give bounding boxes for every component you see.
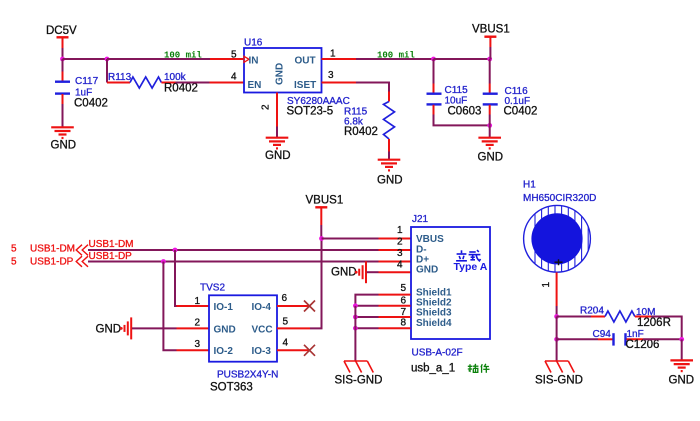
svg-text:3: 3 bbox=[328, 70, 334, 81]
wire node C down to C115 bbox=[433, 59, 435, 93]
svg-text:ISET: ISET bbox=[294, 80, 316, 91]
wire node A down to C117 bbox=[62, 59, 64, 81]
svg-text:GND: GND bbox=[416, 265, 438, 276]
svg-text:5: 5 bbox=[401, 283, 407, 294]
svg-text:SOT363: SOT363 bbox=[210, 382, 253, 394]
wire J21 Shield4 pin bbox=[355, 327, 410, 329]
power flag DC5V bbox=[46, 25, 77, 48]
svg-text:2: 2 bbox=[195, 318, 201, 329]
ground (U16 pin2) bbox=[265, 138, 291, 162]
svg-text:TVS2: TVS2 bbox=[200, 283, 225, 294]
svg-text:SIS-GND: SIS-GND bbox=[535, 375, 583, 387]
svg-text:C0402: C0402 bbox=[504, 105, 538, 117]
svg-text:1206R: 1206R bbox=[637, 317, 671, 329]
wire node G down to TVS2 IO-2 bbox=[163, 262, 209, 351]
mounting hole H1 bbox=[523, 180, 596, 274]
node E junction bbox=[487, 123, 492, 128]
svg-text:GND: GND bbox=[214, 324, 236, 335]
svg-text:4: 4 bbox=[231, 72, 237, 83]
ground bars (TVS2 pin2) bbox=[96, 317, 132, 339]
svg-text:MH650CIR320D: MH650CIR320D bbox=[523, 193, 596, 204]
wire J21 Shield3 pin bbox=[355, 316, 410, 318]
svg-text:4: 4 bbox=[397, 260, 403, 271]
node I junction bbox=[353, 303, 358, 308]
wire TVS2 VCC pin to node H bbox=[277, 239, 322, 329]
ground (C117) bbox=[51, 127, 77, 151]
node C junction bbox=[431, 57, 436, 62]
svg-text:GND: GND bbox=[669, 375, 695, 387]
svg-text:C117: C117 bbox=[75, 76, 99, 87]
wire C117 to ground bbox=[62, 104, 64, 127]
ground bars (J21 pin4) bbox=[331, 261, 366, 283]
svg-text:100 mil: 100 mil bbox=[164, 51, 202, 61]
svg-text:GND: GND bbox=[265, 150, 291, 162]
svg-text:3: 3 bbox=[195, 339, 201, 350]
svg-text:R204: R204 bbox=[580, 306, 604, 317]
svg-text:1: 1 bbox=[330, 49, 336, 60]
svg-text:1: 1 bbox=[195, 296, 201, 307]
wire DC5V to node A bbox=[62, 48, 64, 59]
svg-text:VCC: VCC bbox=[252, 324, 273, 335]
power flag VBUS1 (top) bbox=[472, 24, 510, 60]
svg-text:GND: GND bbox=[478, 152, 504, 164]
svg-text:100k: 100k bbox=[164, 72, 187, 83]
wire node L to node M bbox=[556, 317, 558, 340]
wire node F down to TVS2 IO-1 bbox=[175, 250, 209, 306]
ground (C115 C116) bbox=[478, 138, 504, 164]
wire node E to ground bbox=[489, 125, 491, 137]
wire U16 OUT pin bbox=[322, 58, 357, 60]
wire USB1-DM to J21 D- bbox=[88, 249, 411, 251]
svg-text:8: 8 bbox=[401, 317, 407, 328]
svg-text:GND: GND bbox=[275, 63, 286, 85]
svg-text:C0402: C0402 bbox=[74, 98, 108, 110]
svg-text:SOT23-5: SOT23-5 bbox=[287, 106, 334, 118]
svg-text:USB1-DP: USB1-DP bbox=[30, 256, 74, 267]
svg-text:VBUS1: VBUS1 bbox=[306, 194, 344, 206]
svg-text:5: 5 bbox=[283, 316, 289, 327]
svg-text:EN: EN bbox=[248, 80, 262, 91]
svg-text:6: 6 bbox=[282, 293, 288, 304]
svg-text:GND: GND bbox=[96, 324, 122, 336]
resistor R204 bbox=[580, 306, 671, 329]
wire node M to C94 bbox=[557, 338, 613, 340]
svg-text:U16: U16 bbox=[244, 38, 263, 49]
node K junction bbox=[353, 326, 358, 331]
svg-text:IO-1: IO-1 bbox=[214, 302, 234, 313]
svg-text:SIS-GND: SIS-GND bbox=[335, 375, 383, 387]
node B junction bbox=[105, 57, 110, 62]
svg-text:C1206: C1206 bbox=[626, 339, 660, 351]
wire shields down to SIS-GND bbox=[354, 306, 356, 361]
node G junction on DP bbox=[161, 259, 166, 264]
svg-text:R113: R113 bbox=[108, 72, 132, 83]
capacitor C116 bbox=[483, 86, 538, 125]
svg-text:IO-2: IO-2 bbox=[214, 346, 234, 357]
svg-text:R0402: R0402 bbox=[344, 126, 378, 138]
wire ground bars to J21 GND pin bbox=[367, 271, 411, 273]
svg-text:GND: GND bbox=[331, 267, 357, 279]
node L junction bbox=[554, 314, 559, 319]
SIS-GND symbol (H1) bbox=[535, 361, 583, 387]
svg-text:5: 5 bbox=[11, 244, 17, 255]
svg-text:IN: IN bbox=[249, 56, 259, 67]
svg-text:1: 1 bbox=[397, 225, 403, 236]
label 立式 (drawn strokes) bbox=[456, 250, 480, 261]
svg-text:1: 1 bbox=[541, 282, 552, 288]
capacitor C115 bbox=[427, 85, 482, 117]
wire node A to node B bbox=[63, 58, 108, 60]
wire R115 to ground bbox=[388, 139, 390, 159]
svg-text:Shield4: Shield4 bbox=[416, 318, 452, 329]
svg-text:100 mil: 100 mil bbox=[377, 51, 415, 61]
wire C115 to node E bbox=[434, 115, 490, 126]
node J junction bbox=[353, 315, 358, 320]
node N junction bbox=[679, 337, 684, 342]
wire OUT to node C bbox=[356, 58, 434, 60]
wire U16 GND pin 2 bbox=[276, 93, 278, 138]
svg-text:USB1-DM: USB1-DM bbox=[30, 244, 75, 255]
svg-text:GND: GND bbox=[377, 175, 403, 187]
resistor R113 bbox=[107, 59, 198, 95]
svg-text:VBUS1: VBUS1 bbox=[472, 24, 510, 36]
no-connect X (IO-4) bbox=[304, 301, 315, 312]
resistor R115 bbox=[344, 102, 395, 140]
svg-text:2: 2 bbox=[261, 104, 272, 110]
SIS-GND symbol (J21 shields) bbox=[335, 361, 383, 387]
svg-text:GND: GND bbox=[51, 140, 77, 152]
connector J21 body bbox=[411, 214, 490, 339]
ground (R115) bbox=[377, 160, 403, 187]
svg-text:USB-A-02F: USB-A-02F bbox=[412, 347, 463, 358]
power flag VBUS1 (bottom) bbox=[306, 194, 344, 238]
svg-text:3: 3 bbox=[397, 248, 403, 259]
label 插件 (drawn strokes) bbox=[468, 364, 490, 373]
wire node C to node D bbox=[434, 58, 490, 60]
svg-text:USB1-DM: USB1-DM bbox=[89, 239, 134, 250]
svg-text:USB1-DP: USB1-DP bbox=[89, 251, 133, 262]
svg-text:IO-3: IO-3 bbox=[252, 346, 272, 357]
svg-text:5: 5 bbox=[11, 256, 17, 267]
node M junction bbox=[554, 337, 559, 342]
port USB1-DM bbox=[11, 244, 88, 256]
svg-text:PUSB2X4Y-N: PUSB2X4Y-N bbox=[217, 370, 278, 381]
node F junction on DM bbox=[173, 248, 178, 253]
wire node B to U16 IN bbox=[107, 58, 244, 60]
capacitor C117 bbox=[55, 76, 108, 110]
wire node D down to C116 bbox=[489, 59, 491, 93]
svg-text:J21: J21 bbox=[412, 214, 429, 225]
wire TVS2 IO-4 pin bbox=[277, 305, 310, 307]
wire TVS2 IO-3 pin bbox=[277, 349, 310, 351]
wire node L to R204 bbox=[557, 316, 605, 318]
capacitor C94 bbox=[593, 329, 660, 351]
svg-text:4: 4 bbox=[283, 338, 289, 349]
svg-text:2: 2 bbox=[397, 237, 403, 248]
svg-text:usb_a_1: usb_a_1 bbox=[411, 363, 455, 375]
wire node M down to SIS-GND bbox=[556, 339, 558, 361]
svg-text:5: 5 bbox=[231, 50, 237, 61]
wire J21 Shield2 pin bbox=[355, 305, 410, 307]
ground (right rail) bbox=[669, 360, 695, 386]
node A junction bbox=[60, 57, 65, 62]
wire node H to J21 VBUS bbox=[322, 238, 411, 240]
svg-text:C0603: C0603 bbox=[448, 105, 482, 117]
transistor-array TVS2 body bbox=[200, 283, 278, 394]
wire ground bars to TVS2 GND pin bbox=[132, 327, 209, 329]
port USB1-DP bbox=[11, 256, 88, 267]
pin 1 of H1 bbox=[541, 272, 557, 316]
wire J21 Shield1 pin bbox=[355, 295, 410, 306]
wire node N down to ground bbox=[681, 339, 683, 359]
op-amp U16 body bbox=[244, 38, 350, 118]
svg-text:IO-4: IO-4 bbox=[252, 302, 272, 313]
node D junction bbox=[487, 57, 492, 62]
wire C94 to right rail bbox=[643, 338, 682, 340]
wire USB1-DP to J21 D+ bbox=[88, 261, 411, 263]
svg-text:H1: H1 bbox=[523, 180, 536, 191]
svg-text:Type A: Type A bbox=[454, 261, 488, 273]
svg-text:OUT: OUT bbox=[295, 56, 316, 67]
svg-text:VBUS: VBUS bbox=[416, 234, 444, 245]
wire U16 ISET pin bbox=[322, 83, 390, 102]
no-connect X (IO-3) bbox=[304, 345, 315, 356]
wire R204 to right rail bbox=[651, 317, 682, 340]
svg-text:R0402: R0402 bbox=[164, 83, 198, 95]
wire R113 to U16 EN bbox=[176, 82, 244, 84]
svg-text:C94: C94 bbox=[593, 329, 612, 340]
svg-text:DC5V: DC5V bbox=[46, 25, 77, 37]
node H junction bbox=[319, 236, 324, 241]
